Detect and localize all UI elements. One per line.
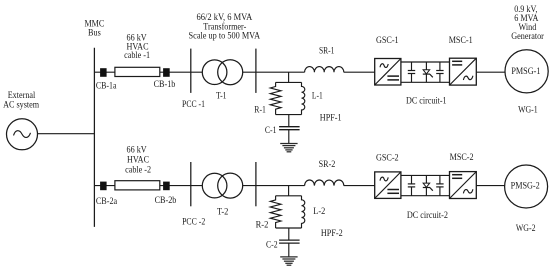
svg-text:SR-1: SR-1 [319, 47, 335, 57]
svg-text:WG-2: WG-2 [516, 224, 536, 234]
svg-text:Bus: Bus [88, 29, 101, 39]
svg-text:WG-1: WG-1 [518, 106, 538, 116]
svg-text:DC circuit-1: DC circuit-1 [406, 97, 447, 107]
svg-text:T-2: T-2 [217, 207, 229, 217]
svg-text:External: External [8, 91, 36, 101]
svg-text:T-1: T-1 [216, 92, 227, 102]
svg-text:R-2: R-2 [256, 220, 269, 230]
svg-text:66 kV: 66 kV [127, 145, 147, 155]
svg-text:HPF-2: HPF-2 [321, 229, 343, 239]
svg-text:GSC-1: GSC-1 [376, 36, 399, 46]
svg-text:PMSG-2: PMSG-2 [511, 182, 540, 192]
svg-text:SR-2: SR-2 [319, 160, 336, 170]
svg-text:C-2: C-2 [266, 240, 278, 250]
svg-text:R-1: R-1 [254, 106, 266, 116]
svg-text:CB-2a: CB-2a [96, 197, 118, 207]
svg-text:PCC -1: PCC -1 [182, 100, 205, 110]
svg-text:cable -1: cable -1 [124, 51, 150, 61]
svg-text:Scale up to 500 MVA: Scale up to 500 MVA [189, 31, 261, 41]
svg-text:cable -2: cable -2 [125, 166, 151, 176]
svg-text:AC system: AC system [3, 100, 40, 110]
svg-text:PCC -2: PCC -2 [182, 217, 205, 227]
svg-text:C-1: C-1 [265, 126, 277, 136]
svg-text:L-1: L-1 [312, 92, 323, 102]
svg-text:DC circuit-2: DC circuit-2 [407, 211, 448, 221]
svg-text:L-2: L-2 [313, 207, 325, 217]
svg-text:GSC-2: GSC-2 [376, 153, 399, 163]
svg-text:MSC-1: MSC-1 [449, 36, 473, 46]
svg-text:66/2 kV, 6 MVA: 66/2 kV, 6 MVA [197, 13, 253, 23]
svg-text:CB-1a: CB-1a [96, 81, 117, 91]
svg-text:HVAC: HVAC [127, 156, 149, 166]
svg-text:Generator: Generator [511, 32, 544, 42]
svg-text:PMSG-1: PMSG-1 [511, 67, 540, 77]
svg-text:HPF-1: HPF-1 [320, 113, 342, 123]
svg-text:MSC-2: MSC-2 [450, 153, 474, 163]
svg-text:CB-2b: CB-2b [155, 196, 177, 206]
svg-text:CB-1b: CB-1b [154, 80, 176, 90]
